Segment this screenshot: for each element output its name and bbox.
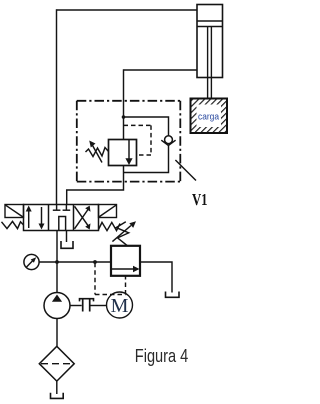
- counterbalance valve adjustment arrow: [92, 145, 102, 163]
- filter F1 (diamond): [39, 346, 74, 381]
- wire: P junction to relief valve: [57, 261, 111, 263]
- wire: P line from valve to pump: [56, 231, 58, 293]
- tank symbol under T port: [61, 241, 73, 248]
- relief valve pilot (dashed): [95, 263, 126, 295]
- DV right spring: [99, 222, 121, 230]
- relief valve spring (diagonal zigzag): [116, 222, 129, 246]
- DV position 1: down arrow: [41, 207, 43, 226]
- pressure gauge PG: [24, 254, 39, 269]
- wire: T drain below valve: [66, 231, 68, 243]
- relief valve internal arrow: [112, 268, 135, 270]
- enclosure V1 dash-dot box: [77, 101, 181, 182]
- check valve (ball in seat): [165, 136, 173, 144]
- node: check-valve branch junction: [122, 115, 126, 119]
- tank symbol at relief outlet: [166, 292, 180, 298]
- DV center: P-T bridge (pi shape): [59, 217, 66, 231]
- wire: vertical drop x=123.5 into V1: [123, 69, 125, 140]
- wire: B-route below valve square: [67, 166, 124, 206]
- node: relief pilot junction: [93, 260, 97, 264]
- relief valve adjustment arrow: [112, 226, 131, 242]
- wire: pump suction: [56, 319, 58, 347]
- leader line to V1 label: [175, 160, 196, 181]
- shaft coupling: [70, 305, 82, 307]
- cylinder rod (double line): [207, 27, 209, 99]
- svg-text:Figura 4: Figura 4: [135, 346, 189, 366]
- wire: filter to tank: [56, 381, 58, 394]
- counterbalance valve spring: [86, 148, 109, 157]
- DV left solenoid box: [5, 205, 24, 218]
- directional valve DV body: [24, 205, 99, 231]
- DV center: A port stub + cap: [56, 205, 58, 211]
- DV position 1: up arrow: [28, 210, 30, 229]
- DV center: B port stub + cap: [65, 205, 67, 211]
- wire: branch to check valve: [124, 117, 169, 136]
- relief valve RV square: [111, 246, 140, 276]
- counterbalance valve V1 square: [109, 140, 137, 166]
- wire: A-line vertical riser x=56.5: [56, 9, 58, 205]
- electric motor M1: [107, 292, 133, 318]
- wire: relief outlet to tank: [140, 262, 172, 293]
- counterbalance valve internal down arrow: [128, 140, 130, 160]
- wire: A-line top horizontal from valve riser to cylinder cap port: [57, 9, 198, 11]
- wire: check valve down and left to B-route: [124, 145, 169, 172]
- cylinder piston: [197, 20, 223, 22]
- pilot line (dashed) of V1 valve: [124, 125, 152, 155]
- svg-text:V1: V1: [192, 190, 208, 209]
- node: gauge junction: [55, 260, 59, 264]
- cylinder C1 body: [197, 5, 223, 78]
- DV left spring: [2, 221, 24, 228]
- pump P1: [44, 293, 70, 319]
- DV right solenoid box: [99, 205, 117, 218]
- wire: rod-side port line y=70: [124, 69, 198, 71]
- load box "carga": [191, 99, 228, 134]
- DV position 3: crossed arrows: [75, 210, 89, 229]
- tank symbol under filter: [51, 393, 64, 399]
- svg-text:carga: carga: [198, 111, 220, 122]
- svg-text:M: M: [111, 295, 129, 317]
- wire: gauge to P line: [39, 261, 57, 263]
